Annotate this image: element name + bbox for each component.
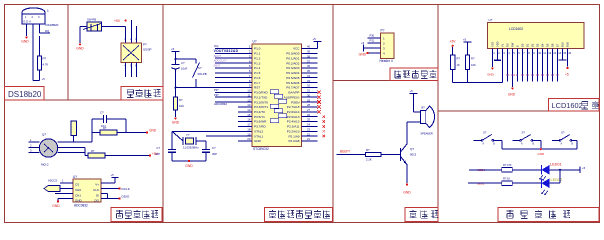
- svg-text:GND: GND: [149, 129, 157, 133]
- divider under LCD block: [438, 110, 599, 112]
- title box 单片机最小系统: [265, 208, 333, 222]
- svg-text:C?: C?: [156, 146, 160, 150]
- svg-text:+5: +5: [582, 166, 586, 170]
- wire resistor to GND: [175, 110, 177, 117]
- svg-text:1: 1: [30, 138, 32, 142]
- svg-text:GND: GND: [52, 204, 60, 208]
- svg-text:P30: P30: [370, 34, 375, 38]
- svg-text:GND: GND: [76, 47, 84, 51]
- svg-text:BLK: BLK: [566, 42, 570, 47]
- svg-text:+5V: +5V: [450, 40, 457, 44]
- svg-text:P3.2/INT0: P3.2/INT0: [254, 100, 268, 104]
- svg-text:37: 37: [307, 59, 310, 63]
- svg-text:P2.7/A15: P2.7/A15: [287, 105, 300, 109]
- svg-text:D6: D6: [551, 43, 555, 47]
- svg-text:15: 15: [247, 113, 251, 117]
- transistor Q2 NPN: [400, 148, 402, 161]
- svg-text:P3.4/T0: P3.4/T0: [254, 110, 265, 114]
- svg-text:22: 22: [307, 132, 310, 136]
- svg-text:+5V: +5V: [114, 19, 121, 23]
- svg-text:+5: +5: [171, 47, 175, 51]
- LCD pin numbers: [493, 51, 571, 55]
- divider under top-left blocks: [5, 99, 164, 101]
- svg-text:P2.2/A10: P2.2/A10: [287, 129, 300, 133]
- svg-text:24: 24: [307, 123, 310, 127]
- svg-text:P3.5/T1: P3.5/T1: [254, 115, 265, 119]
- svg-text:D3: D3: [536, 43, 540, 47]
- svg-text:R?: R?: [91, 149, 95, 153]
- svg-text:12: 12: [548, 51, 551, 55]
- svg-text:DDIO: DDIO: [122, 195, 130, 199]
- svg-text:1: 1: [62, 179, 64, 183]
- wire LED common rail: [559, 170, 561, 183]
- wire ADC CLK to DCLK: [101, 188, 120, 190]
- wire MCU GND stub: [238, 140, 252, 142]
- svg-text:ADC?: ADC?: [214, 54, 222, 58]
- svg-text:4: 4: [508, 51, 510, 55]
- svg-text:32: 32: [307, 84, 310, 88]
- svg-text:3: 3: [30, 148, 32, 152]
- wire speaker to collector: [407, 121, 421, 123]
- svg-text:D7: D7: [556, 43, 560, 47]
- svg-text:STC89C52: STC89C52: [253, 147, 269, 151]
- wire emitter to GND: [406, 165, 408, 184]
- wire header pin4 GND: [368, 52, 381, 54]
- svg-text:XTAL1: XTAL1: [254, 134, 264, 138]
- wire XTAL1 rail: [206, 135, 252, 137]
- power port GND (crystal): [188, 160, 190, 162]
- svg-text:P0.5/AD5: P0.5/AD5: [286, 76, 300, 80]
- svg-text:VSS: VSS: [491, 42, 495, 47]
- wire sw2 right drop: [540, 140, 542, 149]
- svg-text:1K: 1K: [457, 63, 460, 67]
- svg-text:14: 14: [247, 108, 251, 112]
- svg-text:40: 40: [307, 45, 310, 49]
- power bar +5 (ADC): [112, 177, 119, 179]
- power bar +5 (LCD): [464, 41, 472, 43]
- svg-text:D6: D6: [551, 74, 555, 77]
- wires MCU left pins P1.0-P1.7: [215, 45, 252, 83]
- sensor Q1 MQ-2 body: [39, 139, 57, 157]
- svg-text:18: 18: [247, 127, 251, 131]
- svg-text:CLK: CLK: [93, 188, 99, 192]
- resistor R6 vertical: [452, 47, 454, 55]
- svg-text:CH0: CH0: [75, 188, 81, 192]
- svg-text:P2.4/A12: P2.4/A12: [287, 120, 300, 124]
- svg-text:ALE/PROG: ALE/PROG: [284, 95, 300, 99]
- svg-text:P2.6/A14: P2.6/A14: [287, 110, 300, 114]
- svg-text:+5: +5: [463, 38, 467, 42]
- svg-text:A: A: [521, 143, 523, 146]
- svg-text:P3?: P3?: [214, 93, 219, 97]
- svg-text:19: 19: [247, 132, 251, 136]
- svg-text:10K: 10K: [471, 63, 476, 67]
- svg-text:MQ-2: MQ-2: [41, 163, 49, 167]
- wire crystal ground rail: [172, 160, 206, 162]
- svg-text:26: 26: [307, 113, 310, 117]
- switch S4 push button: [512, 139, 520, 141]
- svg-text:LED01: LED01: [550, 163, 562, 167]
- power port GND (reset): [174, 117, 176, 119]
- wires MCU P3.3-P3.7 stubs: [238, 103, 252, 126]
- svg-text:7: 7: [523, 51, 525, 55]
- wire switch right to connector: [102, 26, 126, 28]
- power label +5 (LCD backlight cathode side): [566, 67, 568, 69]
- divider between DS18B20 and power blocks: [67, 5, 69, 101]
- svg-text:23: 23: [307, 127, 310, 131]
- svg-text:16: 16: [247, 118, 251, 122]
- MCU pin names: [254, 47, 300, 143]
- wire heater to pin row: [73, 136, 75, 143]
- LCD pin name row: [491, 41, 570, 47]
- svg-text:GND: GND: [172, 121, 180, 125]
- svg-text:GND: GND: [75, 198, 83, 202]
- junction keys rail GND: [540, 148, 542, 150]
- svg-text:A: A: [561, 143, 563, 146]
- svg-text:PSEN: PSEN: [291, 100, 299, 104]
- junction reset top: [175, 58, 177, 60]
- wire joining DQ and VDD bottom: [33, 80, 40, 82]
- svg-text:S?: S?: [483, 131, 487, 135]
- header J2 serial 4-pin: [381, 33, 395, 59]
- power port GND (serial): [366, 52, 368, 54]
- svg-text:DO: DO: [95, 198, 100, 202]
- wire sw1 right drop: [501, 140, 503, 149]
- svg-text:D5: D5: [546, 74, 550, 77]
- svg-text:D4: D4: [541, 43, 545, 47]
- switch S3 push button: [474, 139, 483, 141]
- svg-text:U?: U?: [253, 40, 257, 44]
- wire keys bottom rail: [502, 148, 577, 150]
- net labels LCD data pins: [506, 74, 560, 77]
- svg-text:RST: RST: [254, 86, 260, 90]
- svg-text:GND: GND: [254, 139, 262, 143]
- svg-text:31: 31: [307, 89, 310, 93]
- svg-text:GND: GND: [487, 73, 493, 77]
- svg-text:10uF: 10uF: [181, 67, 188, 71]
- svg-text:30: 30: [307, 93, 310, 97]
- svg-text:C?: C?: [100, 111, 104, 115]
- svg-text:6: 6: [518, 51, 520, 55]
- svg-text:P0.3/AD3: P0.3/AD3: [286, 66, 300, 70]
- svg-text:SPEAKER: SPEAKER: [421, 132, 433, 136]
- svg-text:P0.1/AD1: P0.1/AD1: [286, 56, 300, 60]
- svg-text:CH1: CH1: [75, 193, 81, 197]
- svg-text:P2.3/A11: P2.3/A11: [287, 125, 300, 129]
- svg-text:Q?: Q?: [42, 133, 46, 137]
- svg-text:ADC0832: ADC0832: [214, 102, 227, 106]
- svg-text:+5: +5: [111, 173, 115, 177]
- svg-text:BLA: BLA: [561, 42, 565, 47]
- svg-text:B: B: [533, 144, 535, 146]
- svg-text:30P: 30P: [155, 152, 160, 156]
- svg-text:P31: P31: [370, 39, 375, 43]
- power port GND (DS18B20 pin1): [25, 36, 27, 38]
- wire reset node to RST pin: [176, 87, 253, 89]
- svg-text:2: 2: [498, 51, 500, 55]
- wire ADC DO to DDIO: [101, 198, 120, 200]
- svg-text:D2: D2: [531, 43, 535, 47]
- svg-text:13: 13: [553, 51, 556, 55]
- wire row A to LED: [512, 169, 541, 171]
- wire ADC pin4 GND: [60, 198, 73, 200]
- svg-text:D1: D1: [526, 74, 530, 77]
- svg-text:LCD1602: LCD1602: [509, 27, 523, 31]
- wire switch left to GND: [80, 26, 87, 28]
- power bar +5 (LCD backlight anode): [559, 59, 567, 61]
- wire cap branch left riser: [91, 119, 93, 142]
- svg-text:11: 11: [247, 93, 250, 97]
- svg-text:B?: B?: [422, 106, 426, 110]
- svg-text:S?: S?: [522, 131, 526, 135]
- svg-text:29: 29: [307, 98, 310, 102]
- wire row A right to +5: [550, 169, 581, 171]
- resistor R2 horizontal: [92, 132, 100, 134]
- svg-text:20: 20: [247, 137, 251, 141]
- title box 串口下载口: [390, 68, 438, 81]
- svg-text:VOUT0832AD: VOUT0832AD: [214, 49, 239, 53]
- svg-text:16: 16: [568, 51, 571, 55]
- title box 烟雾传感器: [111, 208, 162, 222]
- svg-text:P1.6: P1.6: [254, 76, 261, 80]
- svg-text:GND: GND: [403, 191, 411, 195]
- svg-text:R?: R?: [179, 98, 183, 102]
- svg-text:30P: 30P: [212, 152, 217, 156]
- title box 电源接口: [121, 87, 163, 101]
- svg-text:P2.5/A13: P2.5/A13: [287, 115, 300, 119]
- svg-text:39: 39: [307, 50, 310, 54]
- svg-text:P?: P?: [143, 43, 147, 47]
- svg-text:DI: DI: [96, 193, 99, 197]
- wires MCU P3.0-P3.2: [215, 89, 252, 103]
- svg-text:8: 8: [528, 51, 530, 55]
- switch S1 power switch: [87, 22, 102, 31]
- switch S5 push button: [552, 139, 560, 141]
- power port GND (switch): [79, 43, 81, 45]
- svg-text:P2.0/A8: P2.0/A8: [288, 139, 299, 143]
- title box 按键指示灯: [498, 208, 599, 222]
- wire resistor bottoms rail: [452, 70, 454, 83]
- wires LCD pins: [493, 49, 568, 88]
- LCD U4 LCD1602 body: [488, 23, 585, 49]
- svg-text:P0.4/AD4: P0.4/AD4: [286, 71, 300, 75]
- svg-text:XTAL2: XTAL2: [254, 129, 264, 133]
- svg-text:LCD1602: LCD1602: [552, 101, 583, 110]
- wires header pins 1-2: [368, 37, 381, 39]
- crystal Y1 11.0592MHz: [172, 131, 183, 141]
- title box LCD1602液晶: [549, 99, 600, 112]
- svg-text:RS: RS: [506, 43, 510, 47]
- wire row B left: [468, 182, 502, 184]
- wire base resistor: [381, 153, 401, 155]
- svg-text:R?: R?: [366, 148, 370, 152]
- svg-text:R?: R?: [43, 57, 47, 61]
- svg-text:R?: R?: [457, 57, 461, 61]
- svg-text:10: 10: [247, 89, 251, 93]
- power bar +5 (serial, sideways): [363, 45, 365, 52]
- capacitor C2 104: [92, 118, 103, 120]
- buzzer LS1 speaker: [421, 111, 427, 124]
- svg-text:D4: D4: [541, 74, 545, 77]
- svg-text:35: 35: [307, 69, 310, 73]
- svg-text:R? 470: R? 470: [503, 163, 512, 167]
- svg-text:P1.1: P1.1: [254, 52, 261, 56]
- svg-text:P3.7/RD: P3.7/RD: [254, 125, 266, 129]
- svg-text:V+: V+: [95, 182, 99, 186]
- svg-text:GND: GND: [508, 92, 516, 96]
- svg-text:DS18B20: DS18B20: [46, 23, 59, 27]
- svg-text:2.2K: 2.2K: [366, 158, 372, 162]
- svg-text:4.7K: 4.7K: [43, 63, 49, 67]
- sensor U1 DS18B20 TO-92 body: [22, 8, 45, 14]
- svg-text:BEEP?: BEEP?: [340, 150, 351, 154]
- svg-text:33: 33: [307, 79, 310, 83]
- no-ERC small marks lower right pins: [323, 115, 326, 137]
- power label +5V (contrast resistor): [452, 45, 454, 47]
- svg-text:GND: GND: [21, 40, 29, 44]
- svg-text:DS18b20: DS18b20: [8, 90, 42, 99]
- power port GND (LCD RW pin): [511, 87, 513, 89]
- svg-text:34: 34: [307, 74, 310, 78]
- svg-text:EA/VPP: EA/VPP: [288, 91, 299, 95]
- svg-text:P3.1/TXD: P3.1/TXD: [254, 95, 268, 99]
- svg-text:GND: GND: [185, 164, 193, 168]
- svg-text:P0.6/AD6: P0.6/AD6: [286, 81, 300, 85]
- divider MCU block / middle column: [332, 5, 334, 223]
- svg-text:15: 15: [563, 51, 566, 55]
- wire DQ stub to label: [39, 24, 41, 33]
- svg-text:5: 5: [513, 51, 515, 55]
- resistor R1 4.7K pull-up: [38, 56, 42, 70]
- wire connector bottom pins: [125, 63, 127, 78]
- wire ADC pin3: [55, 193, 73, 195]
- svg-text:+5: +5: [565, 73, 569, 77]
- svg-text:P1.7: P1.7: [254, 81, 261, 85]
- wire connector top pins: [125, 27, 127, 44]
- power bar +5 (LED, sideways): [579, 166, 581, 172]
- wires MQ-2 left pins: [29, 141, 40, 143]
- svg-text:2: 2: [30, 143, 32, 147]
- svg-text:1: 1: [47, 9, 49, 13]
- title box DS18b20: [5, 87, 45, 101]
- wire middle pin riser: [84, 148, 86, 156]
- svg-text:+5: +5: [313, 37, 317, 41]
- reset switch S2 SW-PB: [176, 58, 197, 60]
- capacitor C4 30P left: [168, 149, 176, 151]
- wire sw3 right drop: [576, 140, 578, 149]
- svg-text:13: 13: [247, 103, 251, 107]
- wire header pin3 to +5 bar: [364, 47, 381, 49]
- svg-text:U?: U?: [489, 18, 493, 22]
- connector J1 power socket: [121, 43, 142, 63]
- svg-text:RS: RS: [506, 74, 510, 77]
- svg-text:12: 12: [247, 98, 251, 102]
- svg-text:17: 17: [247, 123, 251, 127]
- svg-text:B: B: [572, 144, 574, 146]
- wires MQ-2 right pins: [58, 141, 93, 143]
- resistor R9 1K: [502, 181, 513, 185]
- divider middle column / right column: [437, 5, 439, 223]
- svg-text:R?: R?: [103, 126, 107, 130]
- svg-text:E: E: [516, 45, 520, 47]
- svg-text:P2.1/A9: P2.1/A9: [288, 134, 299, 138]
- svg-text:GND: GND: [359, 52, 367, 56]
- LED D2: [542, 178, 550, 188]
- power bar +5 (MCU): [314, 41, 322, 43]
- svg-text:C?: C?: [181, 61, 185, 65]
- capacitor C3 10uF electrolytic: [175, 59, 177, 65]
- wire pin2 DQ vertical: [32, 24, 34, 81]
- svg-text:P?: P?: [381, 29, 385, 33]
- wire bottom pin stub: [79, 152, 81, 154]
- wire ADC pin1 CS: [60, 182, 73, 184]
- svg-text:U?: U?: [73, 175, 77, 179]
- svg-text:CS: CS: [75, 182, 79, 186]
- svg-text:P0.2/AD2: P0.2/AD2: [286, 61, 300, 65]
- wire cap to reset node: [175, 69, 177, 88]
- svg-text:DCLK: DCLK: [122, 187, 131, 191]
- power bar +5 (buzzer): [410, 93, 418, 95]
- svg-text:P1.0: P1.0: [254, 47, 261, 51]
- wires MCU P0 port right: [302, 50, 318, 88]
- wire pin1 GND: [26, 24, 28, 36]
- wire XTAL2 rail: [172, 130, 252, 132]
- power bar +5 (LCD VDD): [494, 59, 501, 61]
- svg-text:D5: D5: [546, 43, 550, 47]
- wire row A left: [469, 169, 502, 171]
- svg-text:R? 1K: R? 1K: [503, 176, 510, 180]
- svg-text:DQ: DQ: [214, 44, 219, 48]
- power port GND (ADC): [57, 200, 59, 202]
- svg-text:1: 1: [493, 51, 495, 55]
- svg-text:P3.0/RXD: P3.0/RXD: [254, 91, 269, 95]
- capacitor C5 30P right: [202, 149, 210, 151]
- divider under serial block: [333, 80, 438, 82]
- svg-text:36: 36: [307, 64, 310, 68]
- resistor R8 470: [502, 168, 513, 172]
- svg-text:D3: D3: [536, 74, 540, 77]
- divider left column / MCU block: [162, 5, 164, 223]
- svg-text:B: B: [493, 144, 495, 146]
- svg-text:11: 11: [543, 51, 546, 55]
- svg-text:RW: RW: [511, 42, 515, 47]
- svg-text:D0: D0: [521, 43, 525, 47]
- resistor R3 horizontal: [88, 153, 105, 158]
- svg-text:P3.6/WR: P3.6/WR: [254, 120, 267, 124]
- reset power bar +5: [172, 51, 180, 53]
- wire resistor to BEEP label: [337, 153, 366, 155]
- svg-text:P0.7/AD7: P0.7/AD7: [286, 86, 300, 90]
- svg-text:P1.2: P1.2: [254, 56, 261, 60]
- svg-text:10K: 10K: [179, 104, 184, 108]
- svg-text:SW-PB: SW-PB: [198, 72, 207, 76]
- wire R2 to GND label: [117, 132, 147, 134]
- svg-text:38: 38: [307, 54, 310, 58]
- svg-text:ADC0832: ADC0832: [74, 204, 88, 208]
- svg-text:VDD: VDD: [496, 41, 500, 47]
- svg-text:D2: D2: [531, 74, 535, 77]
- svg-text:3: 3: [503, 51, 505, 55]
- svg-text:VCC: VCC: [293, 47, 300, 51]
- power label +5V: [125, 19, 127, 21]
- MCU U3 STC89C52 body: [252, 44, 302, 147]
- net flag AOUT (yellow pointer): [44, 186, 60, 192]
- wire +5 to speaker: [412, 94, 414, 113]
- wire R3 to +5 label: [105, 155, 150, 157]
- svg-text:Y?: Y?: [186, 133, 190, 137]
- svg-text:P3.3/INT1: P3.3/INT1: [254, 105, 268, 109]
- svg-text:P3?: P3?: [214, 88, 219, 92]
